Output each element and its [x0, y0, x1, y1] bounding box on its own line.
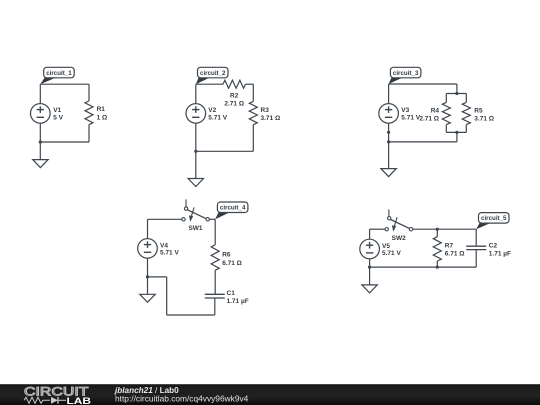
svg-text:C2: C2	[489, 243, 498, 250]
svg-text:1 Ω: 1 Ω	[97, 114, 108, 121]
resistor R7	[433, 237, 441, 261]
label circuit_2	[196, 67, 228, 84]
wire	[445, 94, 447, 103]
ground	[33, 160, 48, 168]
svg-text:6.71 Ω: 6.71 Ω	[222, 260, 242, 267]
node junction	[146, 275, 149, 278]
label R4 value	[419, 108, 439, 123]
svg-text:5 V: 5 V	[53, 114, 63, 121]
wire	[195, 123, 197, 178]
wire	[475, 250, 477, 268]
svg-text:3.71 Ω: 3.71 Ω	[474, 115, 494, 122]
wire	[214, 298, 216, 315]
wire	[389, 83, 457, 85]
wire	[148, 276, 167, 278]
wire	[40, 83, 89, 85]
svg-text:SW2: SW2	[392, 235, 406, 242]
label C2 value	[489, 243, 511, 258]
label V1 value	[53, 107, 63, 121]
svg-text:3.71 Ω: 3.71 Ω	[261, 115, 281, 122]
svg-text:5.71 V: 5.71 V	[160, 250, 179, 257]
voltage source V1	[31, 104, 51, 124]
label circuit_4	[215, 202, 248, 219]
resistor R5	[462, 102, 470, 124]
svg-text:1.71 µF: 1.71 µF	[227, 298, 249, 305]
label SW2	[392, 235, 406, 242]
svg-text:5.71 V: 5.71 V	[208, 114, 227, 121]
wire	[39, 142, 41, 160]
logo diode	[51, 397, 58, 404]
svg-text:6.71 Ω: 6.71 Ω	[445, 250, 465, 257]
svg-text:R7: R7	[445, 243, 454, 250]
wire	[147, 219, 149, 238]
label R5 value	[474, 108, 494, 123]
svg-text:http://circuitlab.com/cq4vvy96: http://circuitlab.com/cq4vvy96wk9v4	[115, 395, 249, 404]
node junction	[436, 266, 439, 269]
node junction	[387, 140, 390, 143]
node junction	[194, 150, 197, 153]
label R6 value	[222, 252, 242, 267]
label circuit_5	[476, 213, 509, 230]
wire	[252, 84, 254, 101]
label R2 value	[224, 93, 244, 108]
svg-text:circuit_3: circuit_3	[393, 70, 419, 77]
voltage source V4	[138, 239, 158, 259]
voltage source V3	[379, 104, 399, 124]
resistor R2	[223, 80, 246, 88]
wire	[388, 84, 390, 104]
wire	[446, 131, 466, 133]
svg-text:R5: R5	[474, 108, 483, 115]
svg-text:C1: C1	[227, 290, 236, 297]
label R3 value	[261, 107, 281, 122]
voltage source V5	[360, 239, 380, 259]
wire	[436, 229, 438, 237]
switch SW2	[385, 209, 413, 231]
wire	[370, 266, 477, 268]
node junction	[436, 228, 439, 231]
wire	[195, 84, 197, 103]
svg-text:circuit_1: circuit_1	[46, 70, 72, 77]
node junction	[368, 266, 371, 269]
ground	[381, 169, 396, 177]
svg-text:circuit_4: circuit_4	[220, 205, 246, 212]
wire	[465, 125, 467, 133]
svg-text:circuit_5: circuit_5	[481, 215, 507, 222]
label V4 value	[160, 242, 179, 256]
wire	[475, 229, 477, 246]
wire	[167, 314, 215, 316]
wire	[456, 132, 458, 142]
wire	[445, 125, 447, 133]
wire	[148, 218, 182, 220]
ground	[140, 294, 155, 302]
svg-text:V5: V5	[382, 243, 390, 250]
resistor R1	[85, 101, 93, 125]
label SW1	[188, 225, 202, 232]
wire	[446, 93, 466, 95]
wire	[456, 84, 458, 94]
label circuit_3	[389, 67, 421, 84]
logo resistor zigzag	[24, 397, 50, 403]
wire	[88, 84, 90, 101]
ground	[362, 285, 377, 293]
svg-text:2.71 Ω: 2.71 Ω	[224, 100, 244, 107]
svg-text:5.71 V: 5.71 V	[401, 114, 420, 121]
label R7 value	[445, 243, 465, 258]
wire	[196, 83, 223, 85]
voltage source V2	[186, 104, 206, 124]
svg-text:V2: V2	[208, 107, 216, 114]
svg-text:2.71 Ω: 2.71 Ω	[419, 115, 439, 122]
svg-text:5.71 V: 5.71 V	[382, 250, 401, 257]
svg-text:V3: V3	[401, 107, 409, 114]
node junction	[455, 92, 458, 95]
svg-text:V1: V1	[53, 107, 61, 114]
label circuit_1	[40, 67, 74, 84]
svg-text:1.71 µF: 1.71 µF	[489, 250, 511, 257]
wire	[147, 258, 149, 294]
capacitor C2	[466, 246, 486, 249]
resistor R3	[249, 101, 257, 124]
wire	[465, 94, 467, 103]
svg-text:R1: R1	[97, 106, 106, 113]
wire	[214, 219, 216, 245]
svg-text:SW1: SW1	[188, 225, 202, 232]
wire	[246, 83, 254, 85]
wire	[436, 261, 438, 267]
svg-text:circuit_2: circuit_2	[200, 70, 226, 77]
svg-text:R2: R2	[230, 93, 239, 100]
wire	[88, 125, 90, 142]
wire	[166, 277, 168, 315]
switch SW1	[182, 199, 210, 222]
label V5 value	[382, 243, 401, 257]
svg-text:R6: R6	[222, 252, 231, 259]
label V3 value	[401, 107, 420, 121]
wire	[39, 123, 41, 142]
wire	[369, 259, 371, 285]
wire	[40, 141, 89, 143]
svg-text:LAB: LAB	[67, 396, 92, 405]
label V2 value	[208, 107, 227, 121]
footer bar	[0, 384, 540, 405]
resistor R6	[211, 245, 219, 270]
label C1 value	[227, 290, 249, 305]
resistor R4	[442, 102, 450, 124]
wire	[389, 141, 457, 143]
node junction	[387, 131, 390, 134]
wire	[370, 228, 385, 230]
ground	[188, 179, 203, 187]
wire	[196, 150, 254, 152]
wire	[39, 84, 41, 103]
wire	[252, 125, 254, 152]
svg-text:R3: R3	[261, 107, 270, 114]
svg-text:jblanch21 / Lab0: jblanch21 / Lab0	[114, 386, 179, 395]
wire	[209, 218, 215, 220]
node junction	[455, 131, 458, 134]
wire	[369, 229, 371, 239]
wire	[214, 270, 216, 294]
capacitor C1	[205, 294, 225, 298]
svg-text:V4: V4	[160, 242, 168, 249]
node junction	[39, 140, 42, 143]
label R1 value	[97, 106, 108, 121]
wire	[413, 228, 476, 230]
wire	[388, 123, 390, 168]
svg-text:R4: R4	[431, 108, 440, 115]
